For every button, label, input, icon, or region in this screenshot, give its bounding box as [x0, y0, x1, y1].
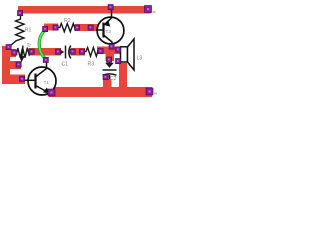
node R3 left	[80, 49, 85, 54]
node speaker bottom	[116, 59, 121, 64]
wire left E bottom arm	[2, 75, 25, 85]
node C1 left	[56, 49, 61, 54]
faint mark near bottom-right terminal	[154, 93, 157, 95]
node C2 bottom	[103, 75, 108, 80]
wire bottom rail	[49, 87, 152, 97]
node top-right terminal	[145, 6, 152, 13]
capacitor C1	[60, 46, 73, 59]
node trimmer left	[12, 50, 17, 55]
connector bendpoints (purple squares)	[6, 5, 153, 97]
resistor R1	[10, 13, 25, 47]
green jumper wire	[39, 31, 46, 60]
wire under T2	[97, 47, 122, 55]
svg-text:R2: R2	[64, 18, 71, 24]
svg-text:R1: R1	[25, 28, 32, 34]
node speaker top	[116, 47, 121, 52]
wire R2 right segment	[75, 24, 98, 31]
node R1 top on rail	[18, 11, 23, 16]
svg-text:T1: T1	[44, 80, 50, 86]
wire left E middle arm	[2, 61, 21, 69]
T1 emitter arrowhead	[43, 88, 50, 94]
node C1 right	[70, 49, 75, 54]
svg-text:R3: R3	[88, 62, 95, 68]
speaker L3	[121, 39, 135, 70]
node R2 left	[53, 25, 58, 30]
node bottom-right terminal	[146, 88, 153, 95]
wire R2 left segment	[44, 24, 58, 31]
node T1 emitter	[48, 89, 55, 96]
node green top	[43, 27, 48, 32]
node R2 wire mid	[88, 25, 93, 30]
T2 emitter arrowhead (PNP)	[103, 20, 110, 27]
node R2 right	[75, 25, 80, 30]
wire C2 bottom stub	[103, 79, 112, 89]
node trimmer wiper	[16, 62, 21, 67]
faint mark near top-right terminal	[153, 11, 156, 13]
svg-text:C1: C1	[62, 62, 69, 68]
node R1 bottom	[6, 45, 11, 50]
wire chain trimmer to C1	[29, 48, 61, 56]
resistor R3	[84, 48, 101, 57]
wire speaker stub	[119, 63, 127, 89]
resistor R2	[57, 24, 78, 32]
node T2 collector bottom	[109, 44, 114, 49]
C2 polarity arrowhead	[105, 63, 114, 68]
svg-text:L3: L3	[137, 56, 143, 62]
trimmer wiper arrowhead	[19, 56, 24, 63]
wire C2 top stub	[106, 52, 115, 61]
node T1 base	[20, 76, 25, 81]
C1 polarity arrowhead	[61, 50, 65, 54]
capacitor C2	[103, 60, 117, 79]
node green bottom T1 collector	[43, 57, 48, 62]
svg-text:Tr: Tr	[27, 43, 32, 49]
node C2 top	[107, 57, 112, 62]
node T2 emitter on rail	[108, 5, 113, 10]
transistor T2	[96, 10, 124, 47]
svg-text:C2: C2	[110, 76, 117, 82]
wire left E top arm	[2, 49, 16, 57]
node R3 right	[98, 49, 103, 54]
node trimmer right	[29, 49, 34, 54]
svg-text:T2: T2	[106, 29, 112, 35]
wire left E spine	[2, 46, 10, 84]
wire chain C1 to R3	[71, 48, 85, 56]
wire top rail	[18, 6, 151, 14]
connector center dots	[8, 6, 151, 94]
trimmer Tr	[15, 46, 32, 59]
transistor T1	[24, 61, 56, 96]
